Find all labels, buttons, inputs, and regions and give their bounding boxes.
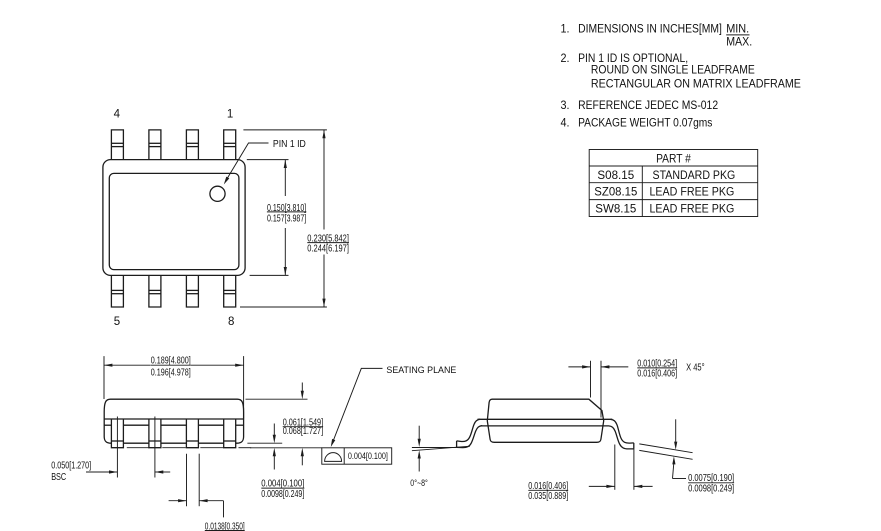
seating plane label and leader <box>331 364 457 447</box>
svg-text:0.004[0.100]: 0.004[0.100] <box>348 450 388 461</box>
note 1 <box>561 23 753 48</box>
pin 8 bottom lead <box>224 275 236 307</box>
pin 1 ID leader line <box>224 139 306 184</box>
dimension 0.0075/0.0098 lead thickness <box>672 419 734 494</box>
svg-text:STANDARD PKG: STANDARD PKG <box>653 170 736 182</box>
svg-text:PIN 1 ID: PIN 1 ID <box>273 139 306 150</box>
note 3 <box>561 100 719 112</box>
side view lead 4 <box>224 419 236 448</box>
svg-text:0.157[3.987]: 0.157[3.987] <box>267 213 306 224</box>
svg-text:MIN.: MIN. <box>726 23 749 35</box>
side view lead 1 <box>111 419 123 448</box>
dimension 0.010/0.016 chamfer <box>568 358 704 417</box>
svg-text:1: 1 <box>227 109 233 121</box>
dimension 0.061/0.068 overall height <box>246 383 324 466</box>
note 4 <box>561 118 713 130</box>
right lead thickness plane upper line <box>639 444 692 453</box>
svg-text:SEATING PLANE: SEATING PLANE <box>386 364 456 375</box>
svg-text:0°~8°: 0°~8° <box>410 477 428 488</box>
svg-text:3.: 3. <box>561 100 570 112</box>
end view right lead upper surface <box>611 419 634 443</box>
pin 3 top lead <box>149 130 161 160</box>
svg-text:PACKAGE WEIGHT 0.07gms: PACKAGE WEIGHT 0.07gms <box>578 118 713 130</box>
svg-text:8: 8 <box>228 316 234 328</box>
side view body lower left side <box>104 419 111 443</box>
side view lead 3 <box>186 419 198 448</box>
svg-text:2.: 2. <box>561 53 570 65</box>
side view step line segments <box>104 424 243 426</box>
end view right lead tip edge <box>633 443 635 449</box>
pin 4 top lead <box>111 130 123 160</box>
pin 5 bottom lead <box>111 275 123 307</box>
pin 1 top lead <box>224 130 236 160</box>
end view right lead lower surface <box>609 426 634 449</box>
svg-text:1.: 1. <box>561 23 570 35</box>
dimension 0.050 BSC lead pitch <box>51 417 170 484</box>
right lead thickness plane lower line <box>639 450 692 459</box>
side view mold parting line <box>104 418 243 420</box>
svg-text:0.016[0.406]: 0.016[0.406] <box>637 369 677 380</box>
seating plane dome symbol <box>325 453 342 462</box>
svg-text:BSC: BSC <box>51 472 66 483</box>
dimension 0.189/0.196 body length <box>104 356 244 419</box>
side view body lower right side <box>236 419 244 443</box>
svg-text:PIN 1 ID IS OPTIONAL,: PIN 1 ID IS OPTIONAL, <box>578 53 688 65</box>
svg-text:REFERENCE JEDEC MS-012: REFERENCE JEDEC MS-012 <box>578 100 718 112</box>
svg-text:0.244[6.197]: 0.244[6.197] <box>307 244 349 255</box>
svg-text:0.035[0.889]: 0.035[0.889] <box>528 491 568 502</box>
pin 6 bottom lead <box>149 275 161 307</box>
seating plane feature box <box>322 448 392 464</box>
svg-text:0.0138[0.350]: 0.0138[0.350] <box>205 521 245 531</box>
dimension 0.0138 lead width <box>169 454 245 531</box>
end view left lead upper surface <box>457 419 481 441</box>
end view left lead lower surface <box>457 426 483 448</box>
dashed seating plane line under side view <box>127 447 251 449</box>
dimension 0.016/0.035 foot length <box>528 445 652 503</box>
left foot angled plane line <box>412 446 470 451</box>
svg-text:SW8.15: SW8.15 <box>595 203 636 215</box>
dimension 0.230/0.244 lead span <box>240 130 349 307</box>
svg-text:MAX.: MAX. <box>726 36 752 48</box>
side view lead 2 <box>149 419 161 448</box>
side view body bottom segments <box>123 442 223 444</box>
seating plane datum line <box>250 447 322 449</box>
svg-text:4: 4 <box>114 109 121 121</box>
svg-text:0.0098[0.249]: 0.0098[0.249] <box>261 489 304 500</box>
svg-text:DIMENSIONS IN INCHES[MM]: DIMENSIONS IN INCHES[MM] <box>578 23 722 35</box>
part number table <box>589 150 758 217</box>
svg-text:S08.15: S08.15 <box>597 170 634 182</box>
end view lead frame lower line <box>481 425 609 427</box>
svg-text:0.068[1.727]: 0.068[1.727] <box>283 426 323 437</box>
top view package body outline <box>103 160 245 276</box>
pin 1 ID circle <box>210 186 225 201</box>
svg-text:0.0098[0.249]: 0.0098[0.249] <box>688 484 734 495</box>
svg-text:SZ08.15: SZ08.15 <box>594 187 637 199</box>
svg-text:X 45°: X 45° <box>686 363 705 374</box>
top view inner body outline <box>109 173 239 269</box>
pin 7 bottom lead <box>186 275 198 307</box>
end view body with chamfer <box>487 399 603 442</box>
svg-text:ROUND ON SINGLE LEADFRAME: ROUND ON SINGLE LEADFRAME <box>591 65 755 77</box>
svg-text:0.196[4.978]: 0.196[4.978] <box>151 368 191 379</box>
dimension 0.004/0.0098 standoff <box>247 424 304 501</box>
svg-text:LEAD FREE PKG: LEAD FREE PKG <box>650 187 735 199</box>
end view lead frame upper line <box>478 418 613 420</box>
svg-text:LEAD FREE PKG: LEAD FREE PKG <box>650 203 735 215</box>
side view body loaf top <box>104 399 243 419</box>
svg-text:5: 5 <box>114 316 120 328</box>
svg-text:RECTANGULAR ON MATRIX LEADFRAM: RECTANGULAR ON MATRIX LEADFRAME <box>591 79 801 91</box>
lead angle arrows 0-8 deg <box>418 426 421 472</box>
svg-text:4.: 4. <box>561 118 570 130</box>
dimension 0.150/0.157 body width <box>247 160 307 276</box>
note 2 <box>561 53 802 91</box>
svg-text:PART #: PART # <box>656 154 691 166</box>
end view left lead tip edge <box>456 441 458 448</box>
left foot seating plane line <box>412 447 457 449</box>
svg-text:0.050[1.270]: 0.050[1.270] <box>51 461 91 472</box>
pin 2 top lead <box>186 130 198 160</box>
